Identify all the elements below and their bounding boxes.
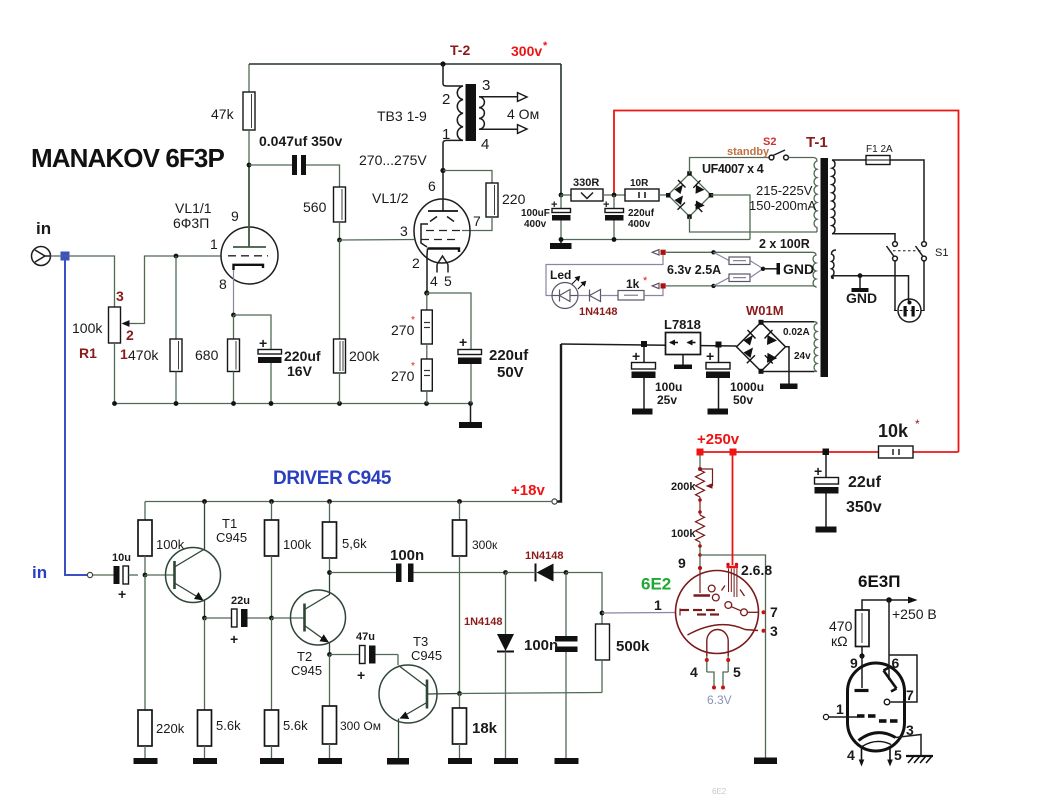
svg-text:VL1/2: VL1/2 (372, 190, 409, 206)
transformer T-2 primary (443, 64, 463, 170)
capacitor 100n coupling (396, 564, 414, 583)
svg-text:47k: 47k (211, 106, 235, 122)
wire lower heater bus (666, 285, 812, 287)
svg-text:3: 3 (116, 288, 124, 304)
wire plate to cap (249, 164, 292, 166)
svg-text:6: 6 (892, 655, 900, 671)
node 100n2 top (564, 570, 569, 575)
resistor 220k (138, 710, 152, 746)
svg-text:100uF: 100uF (521, 208, 550, 219)
node plate junction (247, 163, 252, 168)
svg-text:215-225V: 215-225V (756, 183, 813, 198)
svg-text:9: 9 (678, 555, 686, 571)
terminal output top (518, 93, 528, 102)
node pin7 (762, 610, 766, 614)
svg-text:R1: R1 (79, 345, 97, 361)
wire 5,6k bottom (329, 558, 331, 573)
resistor 330R (571, 189, 603, 201)
wire to 680 (233, 315, 235, 339)
node pin1 junction (600, 611, 605, 616)
transformer T-2 secondary (479, 97, 517, 129)
svg-text:GND: GND (783, 261, 814, 277)
svg-text:50v: 50v (733, 393, 753, 407)
svg-text:+: + (814, 463, 822, 479)
anode slant 6e3p (884, 668, 897, 692)
svg-text:560: 560 (303, 199, 327, 215)
ground 220k (134, 746, 158, 764)
switch S1 (887, 242, 927, 261)
wire 5.6k2 down (271, 618, 273, 710)
svg-text:300v: 300v (511, 43, 542, 59)
terminal output bottom (518, 125, 528, 134)
winding T-1 6.3v (812, 252, 816, 287)
svg-text:220uf: 220uf (284, 348, 321, 364)
wire bracket to ground (700, 555, 766, 758)
heater dots (705, 658, 730, 690)
resistor 1k (618, 291, 644, 301)
wire W01M minus to ground (786, 347, 790, 384)
svg-text:4: 4 (481, 136, 489, 153)
node 6e3p top (886, 597, 892, 603)
heater leads 6E2 (707, 656, 728, 686)
svg-text:400v: 400v (628, 219, 651, 230)
wire psu ground bus (561, 239, 750, 241)
svg-text:+: + (459, 334, 467, 350)
svg-text:T3: T3 (413, 634, 428, 649)
terminal in bottom (87, 572, 92, 577)
wire jack to pot top (51, 256, 115, 307)
wire cathode VL1/2 down (426, 249, 429, 294)
wire led loop (546, 255, 663, 296)
grid VL1/1 dashed (228, 255, 268, 257)
wire cap to 560 (306, 165, 340, 187)
svg-text:16V: 16V (287, 363, 313, 379)
svg-text:6.3V: 6.3V (707, 693, 732, 707)
svg-text:220k: 220k (156, 721, 185, 736)
cathode VL1/2 (428, 249, 460, 253)
svg-text:400v: 400v (524, 219, 547, 230)
svg-text:470k: 470k (128, 347, 159, 363)
ground rail (459, 404, 482, 429)
wire to 470k (175, 256, 177, 339)
capacitor 220uf 400v (603, 195, 624, 240)
terminal pin1 6e3p (823, 714, 828, 719)
wire node to 200k (339, 240, 341, 339)
wire 100k2 bottom (271, 556, 273, 618)
svg-text:3: 3 (482, 77, 490, 94)
wire to 330R (561, 194, 571, 196)
wire driver rail (145, 501, 552, 503)
wire to 500k corner (566, 573, 602, 625)
wire 100k2 (271, 502, 273, 521)
wire 270 bottom (426, 391, 428, 404)
plug mains (894, 299, 925, 322)
svg-text:24v: 24v (794, 351, 811, 362)
grid leads 2.6.8 (729, 569, 737, 598)
node red square (730, 449, 737, 456)
resistor 470k (170, 339, 182, 372)
svg-text:2 x 100R: 2 x 100R (759, 237, 810, 251)
wire stem to pot (699, 452, 701, 469)
diode 1N4148 led (590, 290, 601, 302)
deflector dashes pin1 (680, 609, 719, 616)
resistor 300 Ом (323, 706, 337, 744)
wire 470k bottom (175, 372, 177, 404)
svg-text:W01M: W01M (746, 303, 784, 318)
wire F1 to S1 (890, 160, 924, 242)
node T1 base (143, 573, 148, 578)
wire S2 to secondary (789, 157, 814, 159)
svg-text:+18v: +18v (511, 482, 545, 499)
tube VL1/2 (414, 199, 470, 263)
winding T-1 primary (832, 160, 835, 234)
resistor 220 (486, 183, 498, 217)
ground chassis (852, 276, 869, 292)
svg-text:T-2: T-2 (450, 42, 470, 58)
tube VL1/1 (221, 227, 278, 284)
ground 5.6k T2b (260, 746, 284, 764)
wire pin9 into tube (861, 656, 863, 688)
capacitor 100uF 400v (551, 195, 571, 240)
svg-text:MANAKOV 6F3P: MANAKOV 6F3P (31, 143, 224, 173)
svg-text:350v: 350v (846, 499, 882, 516)
node dots chain (698, 498, 702, 514)
svg-text:6Ф3П: 6Ф3П (173, 215, 209, 231)
svg-text:680: 680 (195, 347, 219, 363)
svg-text:1N4148: 1N4148 (464, 616, 503, 628)
node 100u (641, 341, 647, 347)
resistor 300к (453, 520, 467, 556)
wire 300om (329, 655, 331, 707)
tube 6E2 (676, 571, 759, 654)
svg-text:6Е2: 6Е2 (712, 787, 727, 796)
capacitor 220uf 50V (458, 334, 482, 404)
wire pot to 100k (699, 497, 701, 515)
svg-text:in: in (32, 563, 47, 582)
potentiometer 200k (696, 468, 713, 497)
pin7 circle 6e3p (884, 699, 890, 705)
svg-text:*: * (643, 275, 648, 287)
terminal +18v (552, 499, 557, 504)
svg-text:7: 7 (906, 687, 914, 703)
svg-text:UF4007 x 4: UF4007 x 4 (702, 162, 764, 176)
svg-text:L7818: L7818 (664, 317, 701, 332)
ground hatched (906, 756, 933, 763)
node black square (823, 449, 830, 456)
ground psu (550, 240, 572, 250)
wire 10R to bridge (659, 194, 668, 196)
ground GND bar (763, 263, 780, 275)
wire T1 5.6k (204, 618, 206, 710)
wire diode to 1k (601, 295, 619, 297)
svg-text:4 Ом: 4 Ом (507, 106, 539, 122)
capacitor 22u (232, 609, 272, 627)
wire terminal to winding upper (666, 251, 714, 253)
svg-text:5,6k: 5,6k (342, 536, 367, 551)
wire blue input down (65, 261, 87, 576)
bridge UF4007 x 4 (666, 171, 713, 219)
heater VL1/2 (437, 256, 448, 273)
svg-text:500k: 500k (616, 638, 650, 655)
svg-text:+: + (259, 335, 267, 351)
wire red after 10k (913, 451, 959, 453)
switch circles mid (725, 602, 758, 616)
wire pot bottom (114, 343, 116, 404)
capacitor 47u (360, 646, 399, 664)
wire 300k to collector (459, 556, 461, 694)
node pot top (698, 467, 702, 471)
switch S2 (769, 150, 788, 160)
node T2 emitter (327, 652, 332, 657)
svg-text:7: 7 (473, 213, 481, 229)
fuse F1 2A (866, 156, 890, 165)
wire cathode to 270 (426, 293, 428, 310)
screen arc 6e3p (859, 733, 896, 741)
svg-text:2: 2 (412, 255, 420, 271)
svg-text:7: 7 (770, 604, 778, 620)
node cathode junction (231, 313, 236, 318)
screen arc thin 6e3p (862, 741, 891, 746)
wire T3 collector to 500k (460, 693, 603, 694)
svg-text:100k: 100k (283, 537, 312, 552)
winding T-1 24v (814, 322, 817, 372)
wire 18k (459, 694, 461, 709)
LED (552, 283, 578, 309)
wire upper heater bus (714, 251, 813, 253)
node 100R top (711, 250, 715, 254)
resistor 500k (596, 624, 610, 660)
diode 1N4148 series (506, 564, 567, 582)
resistor 270 upper (421, 310, 432, 344)
resistor 100R upper (714, 252, 764, 268)
ground 18k (448, 744, 472, 764)
svg-text:6.3v 2.5A: 6.3v 2.5A (667, 263, 721, 277)
wire pin1 (602, 612, 676, 615)
input jack J1 (32, 247, 51, 266)
wire bridge top to S2 (690, 158, 770, 174)
wire pin3 to ground (896, 735, 922, 757)
svg-text:standby: standby (727, 146, 770, 158)
svg-text:2: 2 (442, 91, 450, 108)
svg-text:1000u: 1000u (730, 380, 764, 394)
wire 100k to pin9 (699, 542, 701, 570)
svg-text:GND: GND (846, 290, 877, 306)
resistor 5.6k T2b (265, 710, 279, 746)
wire pin6 branch (889, 600, 917, 702)
node bus dots (559, 237, 617, 242)
svg-text:0.047uf 350v: 0.047uf 350v (259, 133, 342, 149)
wire 270 link (426, 344, 428, 359)
screen grid dashed (426, 230, 462, 232)
bridge W01M (737, 320, 786, 374)
wire cathode to cap (234, 315, 272, 349)
svg-text:S1: S1 (935, 247, 948, 259)
svg-text:+: + (357, 667, 365, 683)
capacitor 1000u 50v (706, 348, 730, 415)
node T3 collector (457, 691, 462, 696)
svg-text:8: 8 (219, 276, 227, 292)
svg-text:1: 1 (120, 346, 128, 362)
svg-text:22u: 22u (231, 595, 250, 607)
svg-text:C945: C945 (411, 648, 442, 663)
svg-text:100n: 100n (390, 547, 424, 564)
wire bottom rail (115, 403, 471, 405)
beam plates VL1/2 (430, 217, 454, 222)
svg-text:2.6.8: 2.6.8 (741, 562, 772, 578)
wire S1 right to plug (923, 261, 925, 311)
wire wiper to grid (137, 256, 222, 324)
wire red top (614, 111, 959, 453)
node red junction (612, 193, 617, 198)
wire secondary bottom to bridge (690, 217, 818, 233)
heater pin4 6e3p (859, 748, 865, 767)
ground 6e2 (754, 758, 777, 765)
node red corner (697, 449, 704, 456)
svg-text:1k: 1k (626, 277, 640, 291)
svg-text:1: 1 (654, 597, 662, 613)
resistor 100k T2 (265, 520, 279, 556)
control grid dashed (421, 239, 459, 241)
LED arrows (572, 277, 586, 290)
svg-text:T2: T2 (297, 649, 312, 664)
node T1 emitter (202, 616, 207, 621)
node 100R bottom (711, 284, 715, 288)
wire 200k bottom (339, 373, 341, 404)
wire S1 left to plug (894, 261, 896, 311)
wire bridge minus to bus (711, 195, 750, 240)
svg-text:100k: 100k (671, 528, 696, 540)
svg-text:+250v: +250v (697, 431, 740, 448)
beam shield bracket (421, 224, 428, 247)
svg-text:1: 1 (836, 701, 844, 717)
svg-text:6: 6 (428, 178, 436, 194)
wire junction to 220 (443, 171, 492, 184)
svg-text:*: * (543, 40, 548, 52)
svg-text:47u: 47u (356, 631, 375, 643)
svg-text:+250 В: +250 В (892, 606, 937, 622)
resistor 680 (228, 339, 240, 372)
svg-text:6Е3П: 6Е3П (858, 572, 900, 591)
wire 1k to terminal (644, 289, 663, 296)
svg-text:ТВ3 1-9: ТВ3 1-9 (377, 108, 427, 124)
wire 100n to diode (414, 572, 506, 574)
wire 100k1 bottom (144, 556, 146, 575)
svg-text:300к: 300к (472, 538, 498, 552)
wire red anode (732, 455, 734, 565)
node rail dots (112, 401, 473, 406)
wire 500k bottom (601, 660, 603, 693)
wire primary top to F1 (832, 159, 866, 161)
ground W01M (780, 384, 798, 390)
winding T-1 aux (832, 250, 837, 278)
wire red 250v (700, 452, 879, 455)
svg-text:6E2: 6E2 (641, 575, 671, 594)
wire emitter to 22u (205, 617, 232, 619)
transistor T3 C945 (379, 665, 460, 758)
wire 300v rail (249, 63, 561, 65)
svg-text:0.02A: 0.02A (783, 327, 810, 338)
svg-text:*: * (411, 315, 415, 326)
svg-text:C945: C945 (291, 663, 322, 678)
svg-text:330R: 330R (573, 177, 599, 189)
wire T3 base (397, 655, 399, 666)
svg-text:5: 5 (894, 747, 902, 763)
wire pin1 6e3p (829, 716, 858, 718)
svg-text:5.6k: 5.6k (283, 718, 308, 733)
resistor 5,6k (323, 522, 337, 558)
svg-text:4: 4 (690, 664, 698, 680)
resistor 100k zigzag (696, 515, 705, 542)
svg-text:220: 220 (502, 191, 526, 207)
cathode dome (707, 629, 728, 656)
svg-text:10u: 10u (112, 552, 131, 564)
svg-text:3: 3 (400, 223, 408, 239)
svg-text:+: + (118, 586, 126, 602)
wire +18 drop (558, 344, 562, 502)
svg-text:22uf: 22uf (848, 474, 882, 491)
capacitor 10u (93, 566, 138, 584)
node 560/200k (337, 238, 342, 243)
capacitor 22uf 350v (814, 455, 839, 533)
node cathode junction VL1/2 (424, 290, 429, 295)
svg-text:200k: 200k (349, 348, 380, 364)
ground L7818 (674, 355, 692, 370)
capacitor 100n shunt (555, 573, 579, 765)
wire base T2 (272, 617, 305, 619)
svg-text:Led: Led (550, 268, 571, 282)
capacitor 220uf 16V (258, 335, 282, 404)
svg-text:3: 3 (770, 623, 778, 639)
capacitor 0.047uf 350v (292, 155, 306, 175)
heater pin5 6e3p (887, 748, 893, 767)
svg-text:*: * (411, 361, 415, 372)
resistor 270 lower (421, 359, 432, 391)
wire T2 collector bus (330, 572, 397, 574)
potentiometer R1 100k (109, 307, 138, 343)
wire 300v down (560, 64, 562, 195)
diode 1N4148 shunt (494, 573, 518, 765)
core T-1 (821, 158, 829, 377)
resistor 47k (243, 64, 255, 165)
svg-text:25v: 25v (657, 393, 677, 407)
regulator L7818 (666, 333, 701, 355)
svg-text:100n: 100n (524, 637, 558, 654)
ground 5.6k T1 (193, 746, 217, 764)
svg-text:300 Ом: 300 Ом (340, 719, 381, 733)
resistor 5.6k T1 (198, 710, 212, 746)
svg-text:*: * (915, 417, 920, 431)
anode VL1/1 (233, 165, 266, 247)
svg-text:F1 2A: F1 2A (866, 144, 893, 155)
svg-text:кΩ: кΩ (831, 633, 848, 649)
pins 2.6.8 red tick (726, 563, 738, 567)
svg-text:270...275V: 270...275V (359, 152, 427, 168)
svg-text:5.6k: 5.6k (216, 718, 241, 733)
core T-2 (466, 84, 477, 141)
wire 220k (144, 575, 146, 710)
resistor 100k T1 (138, 520, 152, 556)
wire base T1 (145, 574, 175, 576)
svg-text:T-1: T-1 (806, 134, 828, 151)
svg-text:220uf: 220uf (489, 347, 529, 364)
svg-text:1: 1 (442, 126, 450, 143)
node T2 base (269, 616, 274, 621)
anode VL1/2 (428, 210, 458, 212)
cathode VL1/1 (234, 265, 264, 270)
ground T3 (387, 758, 409, 765)
node blue input (61, 252, 70, 261)
svg-text:200k: 200k (671, 481, 696, 493)
